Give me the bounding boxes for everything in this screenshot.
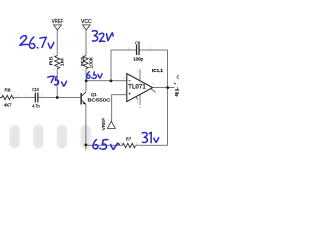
svg-text:100K: 100K — [89, 56, 95, 68]
annotation 6.5v mid (blue handwriting) — [87, 72, 102, 79]
svg-text:C10: C10 — [32, 87, 39, 92]
svg-text:VREF: VREF — [52, 19, 64, 25]
svg-text:C: C — [177, 74, 179, 79]
annotation 32V (blue handwriting) — [92, 31, 113, 42]
wire C10 to Q1 base — [39, 97, 81, 99]
svg-text:4.7n: 4.7n — [32, 103, 40, 108]
svg-text:4K7: 4K7 — [4, 103, 12, 108]
resistor R7 — [121, 136, 138, 147]
resistor R5 value 1M — [55, 56, 60, 69]
wire output down — [167, 88, 169, 146]
junction node feedback tap — [110, 79, 113, 82]
op-amp IC1.1 TL071 — [124, 69, 155, 108]
annotation 31v (blue handwriting) — [142, 132, 158, 142]
svg-text:R5: R5 — [49, 56, 55, 65]
op-amp V+ pin 7 stub — [139, 69, 141, 81]
wire emitter down — [85, 104, 87, 150]
junction node emitter / R7 wire — [85, 144, 88, 147]
supply VREF (bottom) — [101, 118, 115, 131]
wire feedback top left segment — [111, 49, 136, 51]
annotation 7.5v (blue handwriting) — [48, 76, 67, 86]
supply VREF (top) — [52, 19, 64, 30]
wire VREF to R5 — [56, 30, 58, 56]
wire feedback right vertical — [167, 50, 169, 87]
wire feedback top right segment — [140, 49, 168, 51]
wire VCC to R3 — [85, 30, 87, 56]
wire bottom right to R7 — [136, 144, 168, 146]
svg-text:R3: R3 — [80, 57, 86, 66]
annotation 6.5v bottom (blue handwriting) — [93, 140, 119, 150]
junction node output — [166, 86, 169, 89]
svg-text:100p: 100p — [133, 57, 144, 62]
svg-text:C8: C8 — [135, 41, 140, 46]
op-amp V- pin 4 stub — [139, 94, 141, 105]
junction node collector / inverting input — [85, 79, 88, 82]
wire feedback left vertical — [110, 50, 112, 81]
svg-text:BC550C: BC550C — [88, 98, 112, 103]
svg-text:R8: R8 — [5, 88, 12, 93]
annotation 26.7v (blue handwriting) — [20, 36, 54, 49]
wire op-amp output — [153, 87, 175, 89]
junction node R5 / base wire — [56, 96, 59, 99]
capacitor C8 value 100p — [128, 41, 151, 62]
wire op-amp noninverting input — [112, 95, 127, 122]
svg-text:Q1: Q1 — [91, 92, 97, 97]
wire R8 to C10 — [14, 97, 35, 99]
svg-text:IC1.1: IC1.1 — [152, 68, 163, 73]
wire R3 bottom / collector column — [85, 69, 87, 92]
supply VCC — [81, 19, 93, 30]
capacitor C10 value 4.7n — [25, 87, 43, 108]
svg-text:R7: R7 — [126, 136, 132, 141]
resistor R3 value 100K — [83, 56, 88, 69]
wire emitter node to R7 — [86, 144, 122, 146]
svg-text:1M: 1M — [59, 59, 65, 67]
svg-text:VREF: VREF — [101, 118, 106, 131]
svg-text:VCC: VCC — [81, 19, 92, 25]
op-amp offset pin 1 stub — [136, 97, 138, 100]
op-amp offset pin 5 stub — [151, 89, 155, 92]
transistor Q1 BC550C — [80, 92, 111, 105]
wire to op-amp inverting input — [86, 80, 127, 82]
capacitor C? (clipped at right edge, polarized) — [174, 74, 180, 97]
wire R5 bottom to node — [56, 69, 58, 98]
